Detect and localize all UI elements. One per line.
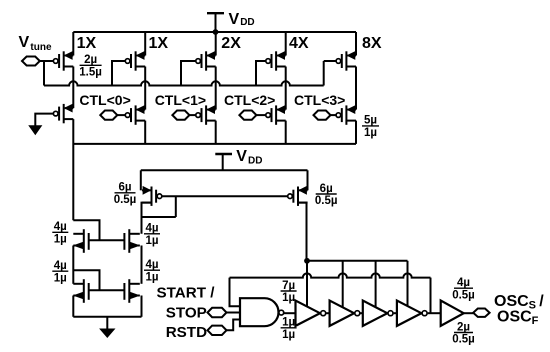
wire M2 drain to CTL<0> switch xyxy=(144,67,146,110)
value label 1X xyxy=(77,35,97,52)
wire CTL<3> pad to gate xyxy=(331,114,337,116)
transistor M11 NMOS (mirror diode) xyxy=(73,279,88,303)
value label 2X xyxy=(221,35,241,52)
wire M1 drain down xyxy=(72,67,74,109)
svg-text:1X: 1X xyxy=(149,35,169,52)
value label 7u/1u (inverter PMOS) xyxy=(281,280,297,304)
io pad CTL<0> xyxy=(100,111,117,120)
wire U1 out to U2 xyxy=(326,312,329,314)
wire M5 8X mirror source to VDD rail xyxy=(355,32,357,56)
svg-text:1µ: 1µ xyxy=(282,329,295,341)
gate U4 inverter xyxy=(397,301,427,326)
svg-text:6µ: 6µ xyxy=(118,182,131,194)
svg-text:1µ: 1µ xyxy=(282,292,295,304)
node VDD junction dot (top) xyxy=(213,29,219,35)
value label 6u/0.5u (M7) xyxy=(114,182,137,206)
svg-text:CTL<1>: CTL<1> xyxy=(155,92,206,108)
transistor M8 6u/0.5u PMOS xyxy=(288,187,308,206)
svg-text:6µ: 6µ xyxy=(320,183,333,195)
value label 1X xyxy=(149,35,169,52)
transistor M2 1X mirror PMOS xyxy=(125,51,145,70)
io pad RSTD xyxy=(208,326,227,335)
wire M8 drain down to osc supply node xyxy=(298,203,307,261)
wire M9 source down xyxy=(72,246,74,284)
svg-text:4µ: 4µ xyxy=(457,277,470,289)
svg-text:V: V xyxy=(236,148,247,165)
svg-text:OSC: OSC xyxy=(494,293,529,310)
wire left column down (M6 drain) xyxy=(72,119,74,220)
transistor M5 8X mirror PMOS xyxy=(336,51,356,70)
wire feedback rail (hops over supply drops) xyxy=(230,273,431,277)
wire U4 out to U5 xyxy=(428,312,441,314)
net label VDD (top) xyxy=(229,11,255,28)
wire supply drop to inverter U2 xyxy=(342,261,344,308)
svg-text:1µ: 1µ xyxy=(54,272,67,284)
gate U3 inverter xyxy=(363,301,393,326)
wire ground rail xyxy=(73,316,141,318)
svg-text:1µ: 1µ xyxy=(145,271,158,283)
svg-text:START /: START / xyxy=(157,285,216,302)
value label 2u/0.5u (U5 NMOS) xyxy=(452,321,475,345)
wire STOP pad to NAND xyxy=(227,312,241,314)
wire VDD rail (top) xyxy=(73,31,356,33)
net label OSCF xyxy=(497,308,539,327)
wire osc supply rail xyxy=(307,260,408,262)
svg-text:0.5µ: 0.5µ xyxy=(452,334,475,346)
value label 1u/1u (inverter NMOS) xyxy=(281,317,297,341)
svg-text:F: F xyxy=(532,315,539,327)
value label 4u/1u (M9) xyxy=(52,221,68,245)
wire CTL<0> drain to bottom rail xyxy=(144,121,146,144)
svg-text:1µ: 1µ xyxy=(145,235,158,247)
svg-text:STOP: STOP xyxy=(166,305,207,322)
wire gate bias rail (hops over drains) xyxy=(44,81,324,85)
svg-text:5µ: 5µ xyxy=(364,115,377,127)
wire M7 diode stub xyxy=(142,196,176,217)
svg-text:V: V xyxy=(229,11,240,28)
svg-text:0.5µ: 0.5µ xyxy=(452,289,475,301)
label RSTD xyxy=(166,324,207,341)
label START / xyxy=(157,285,216,302)
svg-text:tune: tune xyxy=(30,42,52,53)
transistor M4 4X mirror PMOS xyxy=(266,51,286,70)
power VDD symbol (top) xyxy=(207,13,224,32)
wire feedback rail left drop to NAND input xyxy=(230,278,241,307)
wire M2 gate stub xyxy=(112,61,125,86)
wire Vtune pad to M1 gate xyxy=(40,60,54,62)
wire CTL bottom rail xyxy=(73,143,356,145)
label CTL<3> xyxy=(294,92,345,108)
wire supply drop to inverter U3 xyxy=(375,261,377,308)
io pad Vtune xyxy=(22,57,40,66)
value label 8X xyxy=(362,35,382,52)
wire M11-M12 gate wire xyxy=(89,289,125,291)
value label 5u/1u (CTL size) xyxy=(362,115,379,139)
wire M5 drain to CTL<3> switch xyxy=(355,67,357,110)
wire M7-M8 gate wire xyxy=(162,195,288,197)
wire CTL<2> pad to gate xyxy=(256,114,266,116)
value label 4u/1u (M10) xyxy=(144,223,160,247)
io pad OSC output xyxy=(473,309,489,317)
wire Vtune gate bias drop xyxy=(43,61,45,86)
svg-text:4µ: 4µ xyxy=(145,259,158,271)
wire RSTD pad to NAND xyxy=(227,320,241,331)
wire U2 out to U3 xyxy=(360,312,362,314)
wire M11 source to ground rail xyxy=(72,296,74,317)
io pad CTL<2> xyxy=(239,111,256,120)
gate U2 inverter xyxy=(330,301,360,326)
wire M7 drain down xyxy=(142,203,152,234)
svg-text:DD: DD xyxy=(248,155,262,166)
value label 4X xyxy=(289,35,309,52)
svg-text:OSC: OSC xyxy=(497,308,532,325)
net label VDD (mid) xyxy=(236,148,262,167)
wire supply drop to inverter U4 xyxy=(407,261,409,307)
transistor M6 cascode (grounded gate) PMOS xyxy=(53,104,73,123)
svg-text:2X: 2X xyxy=(221,35,241,52)
wire M10 source down xyxy=(141,246,143,284)
wire gate bias rail riser to M5 gate xyxy=(324,61,337,86)
io pad CTL<3> xyxy=(314,111,331,120)
wire CTL<2> drain to bottom rail xyxy=(285,121,287,144)
transistor M7 6u/0.5u PMOS (diode, mirrored) xyxy=(142,187,162,206)
svg-text:CTL<2>: CTL<2> xyxy=(224,92,275,108)
svg-text:1µ: 1µ xyxy=(282,317,295,329)
wire ground stem xyxy=(106,317,108,329)
node osc supply junction dot xyxy=(304,258,310,264)
svg-text:0.5µ: 0.5µ xyxy=(114,194,137,206)
gate U0 NAND output bubble xyxy=(279,310,284,315)
gate U5 output buffer xyxy=(441,301,464,326)
transistor M10 NMOS (cascode out) xyxy=(124,229,139,253)
transistor M3 2X mirror PMOS xyxy=(196,51,216,70)
wire M2 1X mirror source to VDD rail xyxy=(144,32,146,56)
wire M3 drain to CTL<1> switch xyxy=(215,67,217,110)
wire M3 2X mirror source to VDD rail xyxy=(215,32,217,56)
wire CTL<0> pad to gate xyxy=(117,114,125,116)
wire M11 diode loop xyxy=(73,270,99,290)
wire M6 gate to ground xyxy=(35,114,53,126)
svg-text:DD: DD xyxy=(240,17,254,28)
svg-text:4µ: 4µ xyxy=(54,260,67,272)
wire feedback rail right drop to U5 input node xyxy=(430,278,432,314)
svg-text:V: V xyxy=(19,34,30,51)
svg-text:/: / xyxy=(539,293,544,310)
wire M4 drain to CTL<2> switch xyxy=(285,67,287,110)
svg-text:7µ: 7µ xyxy=(282,280,295,292)
wire M9-M10 gate wire xyxy=(89,239,125,241)
svg-text:RSTD: RSTD xyxy=(166,324,207,341)
ground symbol (bottom) xyxy=(100,329,114,337)
gate U0 NAND xyxy=(240,298,279,326)
svg-text:1.5µ: 1.5µ xyxy=(79,67,102,79)
svg-text:0.5µ: 0.5µ xyxy=(315,195,338,207)
wire M7 source from mid rail xyxy=(140,170,142,190)
svg-text:CTL<3>: CTL<3> xyxy=(294,92,345,108)
transistor CTL<0> switch PMOS xyxy=(125,105,145,124)
svg-text:4µ: 4µ xyxy=(54,221,67,233)
wire M4 gate stub xyxy=(256,61,266,86)
wire mid VDD rail xyxy=(141,169,308,171)
transistor M1 (Vtune ref) PMOS xyxy=(53,51,73,70)
wire U3 out to U4 xyxy=(394,312,397,314)
svg-text:1µ: 1µ xyxy=(54,234,67,246)
io pad CTL<1> xyxy=(172,111,189,120)
transistor CTL<3> switch PMOS xyxy=(336,105,356,124)
ground symbol (left) xyxy=(29,126,41,135)
transistor M12 NMOS (mirror out) xyxy=(124,279,139,303)
power VDD symbol (mid) xyxy=(215,154,232,170)
net label Vtune xyxy=(19,34,52,53)
wire supply drop to inverter U1 xyxy=(306,261,308,307)
label STOP xyxy=(166,305,207,322)
wire M9 diode loop xyxy=(73,220,99,240)
value label 4u/1u (M11) xyxy=(52,260,68,284)
wire U5 out to pad xyxy=(464,312,474,314)
wire NAND out to U1 xyxy=(284,312,296,314)
transistor CTL<1> switch PMOS xyxy=(196,105,216,124)
label CTL<1> xyxy=(155,92,206,108)
value label 4u/0.5u (U5 PMOS) xyxy=(452,277,475,301)
svg-text:4X: 4X xyxy=(289,35,309,52)
svg-text:CTL<0>: CTL<0> xyxy=(79,92,130,108)
svg-text:4µ: 4µ xyxy=(145,223,158,235)
transistor CTL<2> switch PMOS xyxy=(266,105,286,124)
value label 4u/1u (M12) xyxy=(144,259,160,283)
transistor M9 NMOS (cascode diode) xyxy=(73,229,88,253)
svg-text:2µ: 2µ xyxy=(457,321,470,333)
svg-text:1X: 1X xyxy=(77,35,97,52)
net label OSCS / xyxy=(494,293,544,312)
value label 6u/0.5u (M8) xyxy=(315,183,338,207)
io pad STOP xyxy=(208,308,227,317)
svg-text:8X: 8X xyxy=(362,35,382,52)
wire M1 (Vtune ref) source to VDD rail xyxy=(72,32,74,56)
wire CTL<1> pad to gate xyxy=(189,114,196,116)
wire M3 gate stub xyxy=(181,61,196,86)
label CTL<2> xyxy=(224,92,275,108)
wire CTL<3> drain to bottom rail xyxy=(355,121,357,144)
wire M4 4X mirror source to VDD rail xyxy=(285,32,287,56)
wire M8 source from mid rail xyxy=(307,170,309,190)
gate U1 inverter xyxy=(296,301,326,326)
wire CTL<1> drain to bottom rail xyxy=(215,121,217,144)
wire M12 source to ground rail xyxy=(141,296,143,317)
label CTL<0> xyxy=(79,92,130,108)
svg-text:2µ: 2µ xyxy=(84,54,97,66)
value label 2u/1.5u (M1 size) xyxy=(79,54,102,78)
svg-text:1µ: 1µ xyxy=(364,127,377,139)
